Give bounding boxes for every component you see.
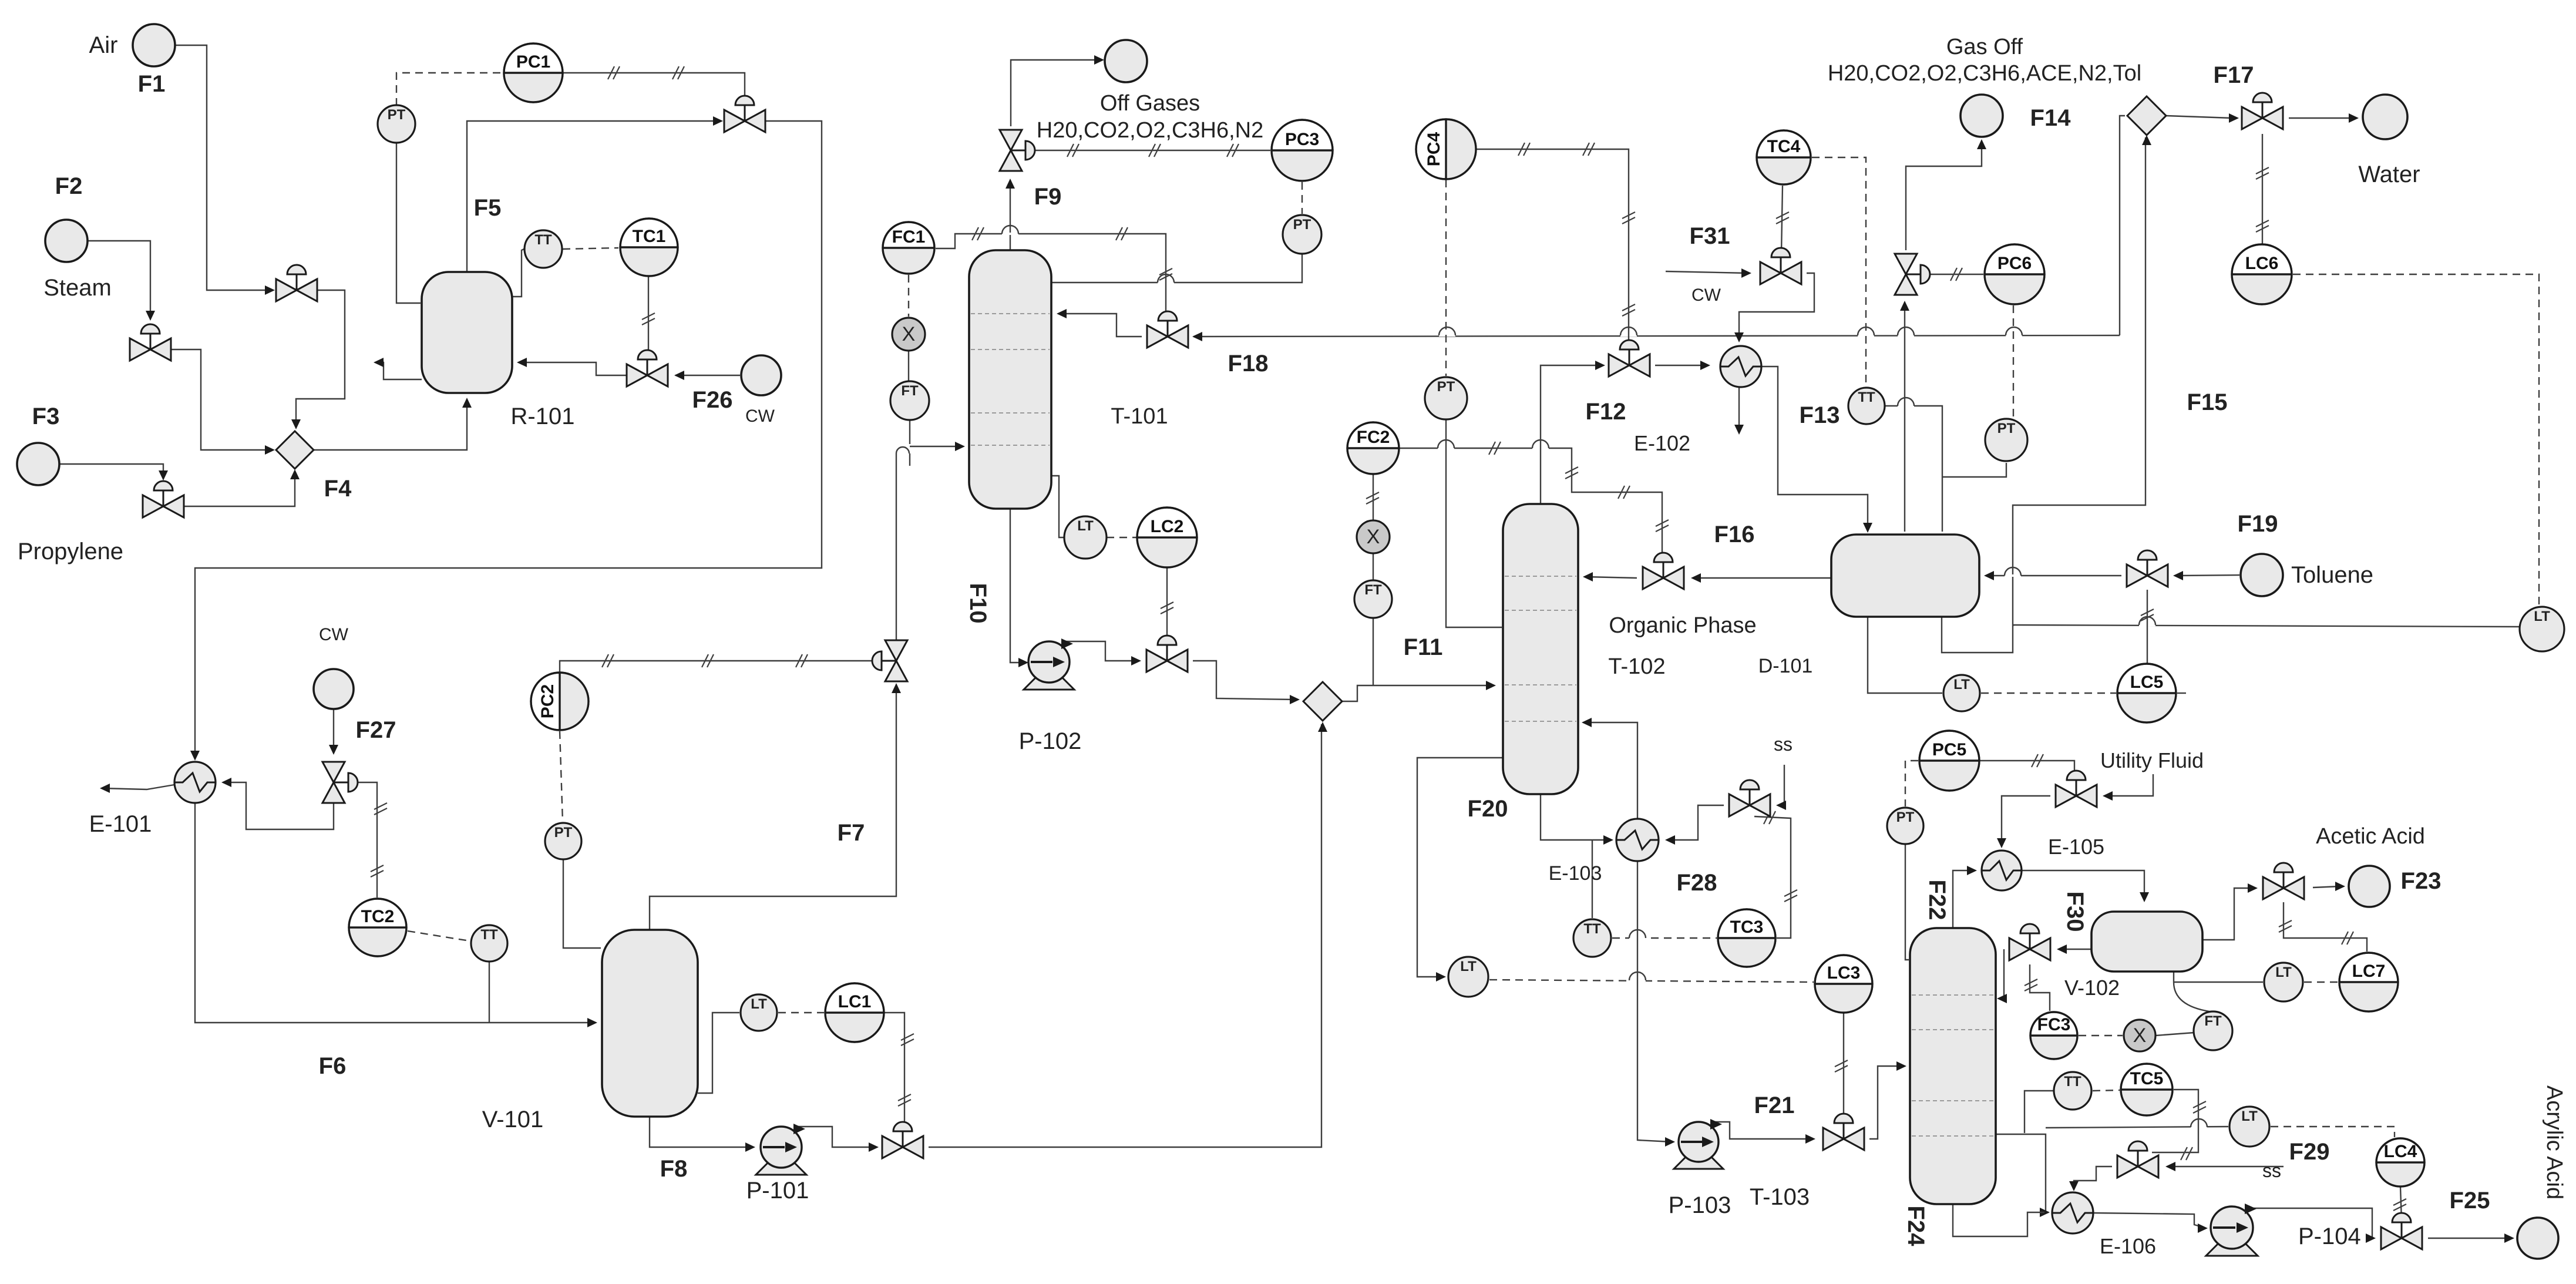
label T-103 bbox=[1750, 1184, 1810, 1210]
instrument TC3 bbox=[1718, 909, 1775, 967]
wire F15 drum to diamond bbox=[1942, 135, 2151, 653]
pump P-102 bbox=[1024, 638, 1074, 690]
label Utility Fluid bbox=[2100, 748, 2204, 772]
wire F21 to T-103 bbox=[1869, 1061, 1906, 1139]
svg-text:X: X bbox=[902, 323, 916, 345]
signal FC1 dashed X bbox=[908, 275, 909, 317]
svg-text:F22: F22 bbox=[1924, 880, 1950, 920]
svg-text:V-101: V-101 bbox=[482, 1107, 544, 1132]
instrument TT E-101 bbox=[471, 925, 507, 962]
svg-text:CW: CW bbox=[745, 406, 775, 426]
signal PC1 to valve bbox=[563, 66, 745, 103]
wire T-103 side tap bbox=[1996, 1134, 2050, 1217]
mixer F15 node bbox=[2127, 96, 2166, 135]
wire F9 overhead bbox=[1005, 179, 1015, 250]
svg-text:LT: LT bbox=[751, 996, 767, 1012]
svg-text:CW: CW bbox=[1691, 285, 1721, 305]
svg-text:TT: TT bbox=[534, 232, 552, 248]
label E-106 bbox=[2100, 1234, 2156, 1258]
vessel V-101 bbox=[602, 930, 698, 1117]
label P-101 bbox=[746, 1178, 809, 1204]
svg-text:PC6: PC6 bbox=[1997, 254, 2032, 273]
instrument LT F20 bbox=[1448, 957, 1488, 997]
wire E-103 return to T-102 bbox=[1582, 718, 1637, 819]
label F18 bbox=[1228, 351, 1269, 377]
label F3 bbox=[32, 404, 60, 429]
valve F9 bbox=[1000, 130, 1035, 171]
label F5 bbox=[474, 195, 502, 221]
instrument X FC3 bbox=[2124, 1020, 2155, 1051]
svg-text:TT: TT bbox=[2064, 1074, 2081, 1090]
label E-102 bbox=[1634, 431, 1690, 455]
valve air feed bbox=[276, 265, 317, 301]
signal PC5 dashed PT bbox=[1905, 761, 1918, 806]
svg-text:LT: LT bbox=[1077, 518, 1094, 534]
svg-text:X: X bbox=[2133, 1024, 2147, 1047]
svg-text:P-104: P-104 bbox=[2298, 1224, 2361, 1249]
signal TC4 to F31 valve bbox=[1776, 186, 1789, 254]
instrument LC1 bbox=[825, 983, 884, 1042]
wire F19 valve to D-101 bbox=[1984, 567, 2121, 580]
signal LC1 to valve bbox=[884, 1013, 914, 1125]
wire LC5 stub bbox=[2177, 693, 2186, 694]
wire T-103 bottoms bbox=[1953, 1204, 2044, 1236]
valve V-102 reflux bbox=[2009, 924, 2050, 960]
svg-text:E-106: E-106 bbox=[2100, 1234, 2156, 1258]
wire TT stub T-103 bbox=[2025, 1091, 2055, 1133]
wire E-103 bottom line bbox=[1637, 861, 1675, 1147]
svg-text:Toluene: Toluene bbox=[2291, 562, 2373, 588]
label F24 bbox=[1903, 1206, 1929, 1247]
label P-102 bbox=[1019, 728, 1082, 754]
wire F18 long line bbox=[1192, 327, 2120, 341]
wire ss F29 line bbox=[2165, 1162, 2284, 1171]
label F27 bbox=[356, 717, 396, 743]
svg-text:T-102: T-102 bbox=[1608, 654, 1665, 679]
wire F2 steam line bbox=[88, 241, 155, 321]
signal LT dashed LC4 bbox=[2271, 1127, 2395, 1137]
svg-text:F12: F12 bbox=[1586, 399, 1626, 425]
label F17 bbox=[2214, 62, 2254, 88]
svg-text:PC1: PC1 bbox=[516, 52, 550, 72]
label F28 bbox=[1677, 870, 1717, 896]
wire R-101 TT tap bbox=[512, 249, 524, 297]
wire X to FT bbox=[908, 351, 909, 381]
svg-text:D-101: D-101 bbox=[1758, 655, 1813, 677]
instrument PC4 bbox=[1416, 119, 1476, 179]
wire F31 valve to E-102 bbox=[1734, 273, 1814, 342]
wire propylene to mixer bbox=[183, 469, 300, 506]
wire ss to F28 valve bbox=[1776, 765, 1786, 810]
signal LT dashed LC1 bbox=[778, 1012, 824, 1013]
label F14 bbox=[2030, 105, 2071, 131]
instrument PT D-101 bbox=[1985, 419, 2027, 461]
stream Off Gases bbox=[1105, 40, 1147, 82]
svg-text:F10: F10 bbox=[965, 583, 991, 624]
drum D-101 bbox=[1831, 535, 1979, 617]
instrument X FC1 bbox=[892, 318, 925, 351]
svg-text:H20,CO2,O2,C3H6,N2: H20,CO2,O2,C3H6,N2 bbox=[1037, 118, 1264, 143]
signal FC2 to F16 valve bbox=[1399, 440, 1669, 556]
valve F27 cw bbox=[322, 762, 358, 803]
stream F1 Air bbox=[133, 24, 175, 66]
svg-text:Acetic Acid: Acetic Acid bbox=[2316, 824, 2425, 849]
wire F7 riser to T-101 feed bbox=[896, 442, 965, 640]
instrument PC2 bbox=[531, 673, 588, 730]
signal LT dashed LC2 bbox=[1107, 537, 1137, 538]
wire F14 riser bbox=[1900, 301, 1909, 532]
instrument PT R-101 bbox=[378, 105, 415, 143]
signal TC1 to F26 valve bbox=[642, 277, 655, 359]
svg-text:F3: F3 bbox=[32, 404, 60, 429]
instrument TT R-101 bbox=[524, 230, 562, 268]
valve steam feed bbox=[130, 324, 171, 361]
label F1 bbox=[138, 71, 166, 97]
label F15 bbox=[2187, 389, 2228, 415]
signal PC6 dashed PT bbox=[2013, 305, 2014, 417]
wire F25 valve to acrylic bbox=[2428, 1233, 2514, 1243]
column T-103 bbox=[1910, 928, 1996, 1204]
wire TT tap D-101 bbox=[1885, 398, 1942, 532]
wire F20 side draw bbox=[1417, 758, 1503, 982]
stream Water F17 bbox=[2363, 95, 2407, 139]
signal FC3 to reflux valve bbox=[2025, 964, 2050, 1011]
wire FT stub bbox=[909, 420, 910, 444]
label Off Gases bbox=[1100, 91, 1200, 116]
signal TC4 dashed TT bbox=[1812, 157, 1866, 386]
svg-text:F23: F23 bbox=[2401, 868, 2442, 894]
wire X to FT2 bbox=[1373, 553, 1374, 580]
label P-103 bbox=[1669, 1192, 1731, 1218]
valve utility fluid bbox=[2056, 771, 2097, 807]
svg-text:TT: TT bbox=[1858, 389, 1875, 405]
stream Toluene F19 bbox=[2241, 554, 2283, 596]
svg-text:TT: TT bbox=[480, 927, 498, 943]
svg-text:F1: F1 bbox=[138, 71, 166, 97]
svg-text:FC2: FC2 bbox=[1357, 428, 1390, 447]
svg-text:X: X bbox=[1367, 526, 1380, 548]
svg-text:TT: TT bbox=[1583, 921, 1601, 937]
svg-text:T-103: T-103 bbox=[1750, 1184, 1810, 1210]
svg-text:TC3: TC3 bbox=[1730, 917, 1764, 937]
wire T-101 LT tap bbox=[1051, 476, 1064, 537]
wire E-101 outlet left bbox=[100, 784, 174, 793]
pump P-104 bbox=[2206, 1204, 2258, 1256]
label F10 bbox=[965, 583, 991, 624]
heat exchanger E-101 bbox=[174, 762, 216, 803]
instrument PC6 bbox=[1985, 244, 2044, 304]
valve F5 PC1 bbox=[724, 96, 765, 132]
instrument PC1 bbox=[504, 43, 563, 102]
label LT bbox=[0, 0, 1, 1]
svg-text:FT: FT bbox=[1364, 582, 1382, 598]
label D-101 bbox=[1758, 655, 1813, 677]
svg-text:F17: F17 bbox=[2214, 62, 2254, 88]
label offgas comp bbox=[1037, 118, 1264, 143]
stream Gas Off F14 bbox=[1960, 95, 2003, 137]
label F11 bbox=[1404, 634, 1443, 660]
svg-text:F8: F8 bbox=[660, 1156, 688, 1182]
svg-text:PC2: PC2 bbox=[538, 684, 557, 718]
label ss f28 bbox=[1774, 734, 1793, 755]
instrument X FC2 bbox=[1357, 520, 1390, 553]
wire PT tap T-103 bbox=[1905, 844, 1909, 960]
valve F26 cw bbox=[627, 350, 668, 386]
label R-101 bbox=[511, 404, 575, 429]
signal FC1 to F18 valve bbox=[936, 226, 1172, 315]
signal LC2 to valve bbox=[1161, 567, 1173, 638]
svg-text:F11: F11 bbox=[1404, 634, 1443, 660]
svg-text:F15: F15 bbox=[2187, 389, 2228, 415]
wire F13 E-102 to D-101 bbox=[1761, 367, 1872, 533]
signal PC4 dashed PT bbox=[1445, 180, 1447, 376]
label T-101 bbox=[1111, 404, 1168, 429]
label Propylene bbox=[18, 539, 123, 564]
wire F9 to off gases bbox=[1011, 55, 1104, 126]
svg-text:T-101: T-101 bbox=[1111, 404, 1168, 429]
svg-text:TC2: TC2 bbox=[361, 907, 395, 926]
label Acetic Acid bbox=[2316, 824, 2425, 849]
instrument LC4 bbox=[2376, 1138, 2424, 1186]
svg-text:F29: F29 bbox=[2289, 1139, 2330, 1165]
svg-text:F18: F18 bbox=[1228, 351, 1269, 377]
wire T-102 overhead bbox=[1541, 361, 1605, 504]
instrument TT E-103 bbox=[1573, 919, 1611, 957]
instrument FT F11 bbox=[1354, 580, 1392, 618]
wire utility fluid bbox=[2103, 774, 2153, 801]
svg-text:Organic Phase: Organic Phase bbox=[1609, 613, 1756, 638]
instrument LT T-101 bbox=[1064, 516, 1107, 559]
wire PT tap V-101 bbox=[563, 859, 601, 948]
svg-text:LT: LT bbox=[1953, 677, 1970, 693]
wire V-102 to reflux valve bbox=[2057, 944, 2091, 954]
label F2 bbox=[55, 173, 83, 199]
label F26 bbox=[692, 387, 733, 413]
signal F14 valve to PC6 bbox=[1922, 268, 1983, 281]
wire P-103 discharge F21 bbox=[1710, 1122, 1815, 1144]
svg-text:F13: F13 bbox=[1800, 402, 1840, 428]
label F29 bbox=[2289, 1139, 2330, 1165]
svg-text:F9: F9 bbox=[1034, 184, 1062, 210]
heat exchanger E-102 bbox=[1720, 346, 1761, 387]
svg-text:Off Gases: Off Gases bbox=[1100, 91, 1200, 116]
svg-text:F20: F20 bbox=[1468, 796, 1508, 822]
svg-text:TC1: TC1 bbox=[633, 227, 666, 246]
instrument LC3 bbox=[1815, 955, 1872, 1013]
wire E-106 to P-104 bbox=[2093, 1213, 2208, 1233]
valve F18 bbox=[1147, 311, 1188, 348]
wire LC2 valve to mixer bbox=[1193, 661, 1300, 704]
label E-105 bbox=[2048, 835, 2104, 859]
wire mixer F4 to R-101 bbox=[314, 398, 472, 450]
svg-text:E-101: E-101 bbox=[89, 811, 152, 837]
svg-text:Water: Water bbox=[2358, 162, 2420, 187]
svg-text:Acrylic Acid: Acrylic Acid bbox=[2542, 1085, 2567, 1199]
signal LC3 to F21 valve bbox=[1835, 1013, 1848, 1122]
label F22 bbox=[1924, 880, 1950, 920]
label V-102 bbox=[2064, 976, 2120, 1000]
valve F21 LC3 bbox=[1823, 1114, 1864, 1150]
label CW f31 bbox=[1691, 285, 1721, 305]
label CW f26 bbox=[745, 406, 775, 426]
heat exchanger E-103 bbox=[1616, 819, 1659, 861]
label Gas Off bbox=[1946, 35, 2023, 59]
label Water bbox=[2358, 162, 2420, 187]
column T-102 bbox=[1503, 504, 1578, 794]
instrument LT D-101 bottom bbox=[1943, 675, 1980, 711]
valve LC2 bottoms bbox=[1146, 636, 1188, 672]
svg-text:F5: F5 bbox=[474, 195, 502, 221]
wire F16 line bbox=[1691, 573, 1832, 583]
signal TC5 to F29 valve bbox=[2152, 1090, 2206, 1160]
instrument PT T-102 bbox=[1425, 377, 1467, 419]
instrument PT T-101 bbox=[1283, 215, 1321, 254]
svg-text:LC1: LC1 bbox=[838, 992, 872, 1011]
svg-text:PT: PT bbox=[554, 825, 573, 841]
signal PC2 to F7 valve bbox=[560, 654, 875, 673]
vessel R-101 bbox=[422, 272, 512, 393]
wire steam to mixer bbox=[170, 349, 275, 455]
instrument TC4 bbox=[1757, 130, 1811, 184]
wire toluene line bbox=[2173, 571, 2239, 580]
wire X to FT3 bbox=[2155, 1033, 2194, 1036]
wire TT tap E-103 line bbox=[1592, 840, 1593, 918]
label F25 bbox=[2450, 1188, 2490, 1214]
signal LC4 to F25 valve bbox=[2393, 1186, 2406, 1221]
svg-text:LC3: LC3 bbox=[1827, 963, 1861, 983]
wire F18 into T-101 bbox=[1057, 309, 1142, 337]
wire E-101 bottom F6 bbox=[195, 803, 597, 1027]
wire F8 bottoms bbox=[650, 1117, 755, 1152]
svg-text:F26: F26 bbox=[692, 387, 733, 413]
mixer F4 bbox=[276, 431, 314, 469]
valve F17 water bbox=[2242, 93, 2283, 129]
svg-text:FT: FT bbox=[2204, 1013, 2222, 1029]
pump P-103 bbox=[1674, 1119, 1723, 1169]
svg-text:Utility Fluid: Utility Fluid bbox=[2100, 748, 2204, 772]
instrument PT T-103 bbox=[1887, 808, 1923, 844]
svg-text:LC5: LC5 bbox=[2130, 673, 2164, 692]
signal PC4 to F12 valve bbox=[1476, 143, 1635, 340]
label gasoff comp bbox=[1828, 61, 2141, 86]
instrument FT FC3 bbox=[2194, 1011, 2232, 1050]
label F9 bbox=[1034, 184, 1062, 210]
label PC5 bbox=[0, 0, 1, 1]
mixer F11 node bbox=[1303, 682, 1342, 721]
svg-text:PC4: PC4 bbox=[1424, 132, 1444, 167]
svg-text:FC1: FC1 bbox=[892, 227, 926, 247]
wire F8 to mixer bbox=[929, 722, 1327, 1147]
svg-text:PT: PT bbox=[1293, 217, 1311, 233]
signal LT dashed LC7 bbox=[2304, 982, 2338, 983]
wire F27 valve to E-101 bbox=[221, 778, 334, 829]
signal LC5 to F19 valve bbox=[2141, 590, 2154, 663]
wire FT tap F11 bbox=[1373, 618, 1374, 685]
instrument PT V-101 bbox=[545, 823, 581, 859]
instrument TT T-103 bbox=[2054, 1072, 2091, 1110]
wire air to mixer bbox=[291, 290, 345, 429]
svg-text:PT: PT bbox=[388, 107, 406, 123]
wire F29 valve to E-106 bbox=[2069, 1167, 2112, 1191]
svg-text:E-103: E-103 bbox=[1549, 862, 1602, 885]
signal FC2 to X bbox=[1366, 474, 1379, 520]
label Steam bbox=[43, 275, 112, 301]
valve F7 bbox=[872, 640, 907, 681]
svg-text:F2: F2 bbox=[55, 173, 83, 199]
instrument PC5 bbox=[1919, 731, 1979, 791]
wire F28 valve to E-103 bbox=[1665, 805, 1724, 845]
signal PT dashed to PC1 bbox=[396, 73, 502, 106]
svg-text:FC3: FC3 bbox=[2037, 1015, 2071, 1034]
svg-text:F24: F24 bbox=[1903, 1206, 1929, 1247]
wire V-102 bottom bbox=[2174, 972, 2210, 1011]
instrument TT F13 bbox=[1848, 388, 1885, 424]
label F21 bbox=[1754, 1093, 1795, 1118]
svg-text:F21: F21 bbox=[1754, 1093, 1795, 1118]
pump P-101 bbox=[756, 1124, 806, 1175]
svg-text:LC7: LC7 bbox=[2352, 962, 2386, 981]
label F30 bbox=[2062, 892, 2088, 932]
wire LT line T-103 bbox=[2046, 1119, 2228, 1128]
stream F3 Propylene bbox=[17, 443, 59, 485]
instrument LC5 bbox=[2117, 664, 2176, 722]
signal LT dashed LC5 bbox=[1981, 693, 2116, 694]
wire D-101 bottom LT tap bbox=[1868, 617, 1942, 693]
valve F8 LC1 bbox=[882, 1122, 923, 1158]
label F20 bbox=[1468, 796, 1508, 822]
wire P-101 discharge bbox=[795, 1127, 879, 1152]
label E-101 bbox=[89, 811, 152, 837]
wire utility valve to E-105 bbox=[1997, 796, 2050, 848]
svg-text:LC4: LC4 bbox=[2384, 1142, 2417, 1161]
wire F12 valve to E-102 bbox=[1655, 361, 1710, 370]
instrument TC5 bbox=[2121, 1064, 2173, 1115]
stream F2 Steam bbox=[45, 220, 88, 262]
wire F22 overhead bbox=[1953, 866, 1977, 928]
signal PC5 to utility valve bbox=[1979, 754, 2074, 779]
wire F1 air line bbox=[175, 45, 275, 295]
svg-text:Gas Off: Gas Off bbox=[1946, 35, 2023, 59]
wire E-102 cw out bbox=[1734, 388, 1744, 435]
wire PT tap R-101 bbox=[396, 143, 421, 303]
stream Acrylic Acid F25 bbox=[2517, 1218, 2558, 1259]
svg-text:TC5: TC5 bbox=[2130, 1069, 2164, 1088]
wire F17 valve to water bbox=[2289, 113, 2359, 123]
valve F29 ss bbox=[2117, 1141, 2158, 1178]
label T-102 bbox=[1608, 654, 1665, 679]
signal PC2 dashed PT bbox=[560, 731, 563, 822]
wire F14 valve to gas off bbox=[1906, 139, 1986, 250]
drum V-102 bbox=[2091, 912, 2202, 972]
svg-text:LT: LT bbox=[2534, 609, 2550, 624]
svg-text:F6: F6 bbox=[319, 1053, 347, 1079]
signal TC3 to F28 valve bbox=[1754, 811, 1797, 938]
wire F5 recycle loop bbox=[190, 121, 822, 761]
svg-text:P-103: P-103 bbox=[1669, 1192, 1731, 1218]
wire V-102 to F23 valve bbox=[2202, 883, 2258, 940]
instrument TC2 bbox=[349, 899, 406, 956]
svg-text:ss: ss bbox=[2262, 1160, 2281, 1181]
wire PT branch bbox=[1942, 463, 2006, 477]
instrument FT F7 bbox=[890, 381, 929, 420]
heat exchanger E-105 bbox=[1982, 851, 2022, 890]
valve F16 bbox=[1643, 553, 1684, 589]
instrument FC1 bbox=[883, 222, 934, 274]
label F23 bbox=[2401, 868, 2442, 894]
wire F3 propylene line bbox=[59, 464, 168, 480]
signal F27 valve from TC2 bbox=[348, 782, 387, 898]
label F4 bbox=[324, 476, 352, 502]
